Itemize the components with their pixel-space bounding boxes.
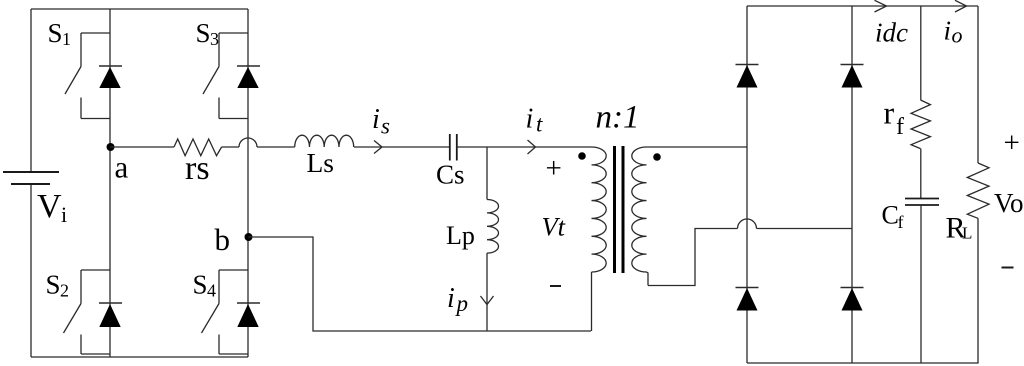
transformer primary polarity dot bbox=[578, 152, 586, 160]
svg-text:s: s bbox=[381, 113, 390, 138]
transformer core bars bbox=[615, 146, 624, 273]
svg-text:i: i bbox=[526, 103, 534, 134]
resistor RL bbox=[967, 163, 989, 218]
svg-text:+: + bbox=[546, 153, 562, 185]
svg-text:L: L bbox=[962, 224, 972, 243]
svg-text:S: S bbox=[48, 18, 63, 48]
wire secondary top to rectifier bbox=[647, 146, 748, 148]
wire RL leg top bbox=[977, 6, 979, 163]
svg-text:S: S bbox=[46, 270, 61, 300]
switch S4 bbox=[202, 270, 249, 354]
svg-text:S: S bbox=[196, 18, 211, 48]
wire Ls to Cs bbox=[354, 146, 450, 148]
battery source Vi plates bbox=[3, 172, 59, 184]
svg-text:o: o bbox=[952, 23, 963, 48]
transformer secondary polarity dot bbox=[653, 153, 661, 161]
svg-text:idc: idc bbox=[875, 18, 908, 48]
label - (output) bbox=[1002, 267, 1014, 269]
diode D5 (rectifier top left) bbox=[736, 65, 759, 88]
switch S2 bbox=[64, 270, 111, 354]
inductor Ls bbox=[295, 135, 354, 147]
wire rectifier top rail bbox=[747, 5, 978, 7]
svg-text:i: i bbox=[372, 104, 380, 135]
svg-text:i: i bbox=[61, 202, 67, 227]
wire rf Cf branch top bbox=[920, 6, 922, 100]
wire bottom rail left bridge bbox=[31, 356, 248, 358]
diode D4 (antiparallel with S4) bbox=[237, 303, 260, 327]
diode D1 (antiparallel with S1) bbox=[99, 66, 122, 88]
diode D6 (rectifier top right) bbox=[841, 65, 864, 88]
wire bridge leg 1 bbox=[109, 9, 111, 357]
svg-text:n:1: n:1 bbox=[596, 100, 640, 136]
capacitor Cf plates bbox=[905, 199, 939, 206]
svg-text:2: 2 bbox=[60, 281, 69, 301]
wire Cf to bottom rail bbox=[920, 205, 922, 363]
wire rf to Cf bbox=[920, 149, 922, 199]
svg-text:rs: rs bbox=[185, 150, 210, 187]
diode D8 (rectifier bottom right) bbox=[841, 288, 864, 311]
current arrow idc bbox=[875, 0, 887, 12]
current arrow io bbox=[955, 0, 967, 12]
svg-text:i: i bbox=[944, 16, 952, 46]
wire hop over leg 2 bbox=[239, 138, 257, 147]
node b junction dot bbox=[245, 233, 253, 241]
wire rectifier leg 4 bbox=[851, 6, 853, 363]
wire Lp branch upper bbox=[486, 147, 488, 200]
svg-text:+: + bbox=[1004, 127, 1020, 159]
wire Lp branch lower bbox=[486, 253, 488, 331]
wire battery bottom lead bbox=[30, 184, 32, 357]
svg-text:f: f bbox=[896, 114, 904, 140]
svg-text:S: S bbox=[193, 270, 208, 300]
diode D7 (rectifier bottom left) bbox=[736, 288, 759, 311]
svg-text:C: C bbox=[882, 201, 899, 230]
wire Cs to transformer primary bbox=[457, 146, 592, 148]
transformer T1 primary winding bbox=[592, 147, 607, 272]
wire hop to Ls bbox=[257, 146, 295, 148]
wire top rail left bridge bbox=[31, 8, 248, 10]
wire rs to hop bbox=[222, 146, 239, 148]
wire node b to bottom return bbox=[248, 237, 591, 331]
current arrow ip bbox=[481, 296, 494, 305]
svg-text:p: p bbox=[455, 291, 469, 316]
wire primary bottom lead bbox=[591, 272, 593, 331]
svg-text:Vo: Vo bbox=[994, 188, 1024, 218]
node a junction dot bbox=[107, 143, 115, 151]
svg-text:3: 3 bbox=[210, 29, 219, 49]
switch S1 bbox=[65, 33, 110, 119]
svg-text:Cs: Cs bbox=[436, 160, 465, 190]
wire rectifier leg 3 bbox=[746, 6, 748, 363]
wire RL leg bottom bbox=[977, 218, 979, 363]
wire rectifier bottom rail bbox=[747, 362, 979, 364]
diode D3 (antiparallel with S3) bbox=[237, 66, 260, 88]
current arrow is bbox=[374, 141, 382, 154]
wire hop over rectifier left leg bbox=[738, 219, 757, 229]
svg-text:t: t bbox=[536, 112, 543, 137]
svg-text:r: r bbox=[884, 95, 895, 131]
wire battery top lead bbox=[30, 9, 32, 172]
svg-text:4: 4 bbox=[207, 281, 216, 301]
wire secondary bottom to rectifier right leg bbox=[648, 229, 852, 286]
svg-text:Ls: Ls bbox=[307, 147, 335, 178]
svg-text:Lp: Lp bbox=[446, 221, 475, 250]
switch S3 bbox=[203, 33, 248, 119]
wire node a to rs bbox=[110, 146, 174, 148]
svg-text:V: V bbox=[37, 188, 62, 225]
svg-text:1: 1 bbox=[62, 29, 71, 49]
inductor Lp bbox=[487, 200, 499, 254]
diode D2 (antiparallel with S2) bbox=[99, 303, 122, 327]
svg-text:b: b bbox=[215, 222, 231, 257]
svg-text:a: a bbox=[115, 150, 129, 185]
svg-text:f: f bbox=[898, 212, 904, 232]
capacitor Cs plates bbox=[450, 134, 457, 161]
label - (Vt bottom) bbox=[550, 285, 561, 287]
wire bridge leg 2 bbox=[247, 9, 249, 357]
resistor rs bbox=[174, 139, 222, 156]
resistor rf bbox=[911, 100, 930, 149]
transformer secondary winding bbox=[632, 147, 648, 286]
svg-text:Vt: Vt bbox=[542, 212, 566, 242]
svg-text:i: i bbox=[447, 283, 455, 314]
current arrow it bbox=[528, 140, 536, 154]
